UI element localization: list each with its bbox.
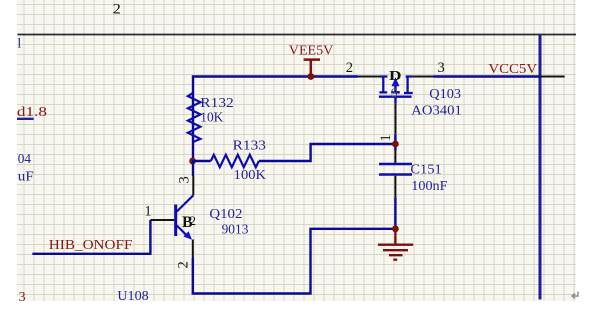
resistor R133 [211, 155, 259, 167]
svg-text:3: 3 [177, 176, 193, 183]
wire R132 to node [192, 142, 194, 161]
emitter arrowhead [183, 231, 192, 240]
svg-text:VCC5V: VCC5V [488, 62, 537, 77]
MOSFET drain contact [404, 77, 413, 94]
node junction R132/R133/collector [189, 158, 196, 165]
svg-text:Q103: Q103 [429, 87, 461, 102]
wire collector to node [192, 161, 194, 176]
wire node to R133 [193, 160, 211, 162]
svg-text:100nF: 100nF [411, 179, 447, 194]
MOSFET Q103 body: source contact [379, 77, 387, 93]
MOSFET Q103 drain pin [412, 76, 433, 78]
power symbol VEE5V [304, 60, 320, 77]
svg-text:l: l [17, 36, 21, 51]
MOSFET bulk contact with arrow [391, 84, 400, 92]
svg-text:2: 2 [346, 60, 353, 76]
emitter diagonal [177, 226, 188, 237]
junction gate/R133/C151 [392, 141, 399, 148]
wire VEE5V rail to MOSFET source [193, 77, 358, 143]
wire MOSFET drain to VCC5V [434, 75, 541, 77]
svg-text:100K: 100K [234, 168, 266, 183]
svg-text:D: D [389, 69, 402, 84]
sheet symbol right edge (blue vertical line) [539, 35, 542, 300]
wire C151 to ground junction [394, 197, 396, 228]
svg-text:10K: 10K [200, 110, 223, 125]
collector diagonal [177, 195, 194, 211]
svg-text:9013: 9013 [222, 222, 249, 237]
wire HIB_ONOFF to base [32, 220, 151, 254]
svg-text:C151: C151 [410, 163, 441, 178]
capacitor C151 plates [379, 164, 412, 175]
svg-text:VEE5V: VEE5V [289, 43, 334, 58]
ground symbol [378, 229, 413, 260]
emitter pin [192, 240, 194, 259]
svg-text:1: 1 [144, 203, 151, 219]
svg-text:3: 3 [438, 60, 445, 76]
wire emitter to ground net [193, 229, 396, 294]
svg-text:R132: R132 [200, 96, 234, 111]
paragraph return mark [572, 292, 578, 299]
capacitor C151 pin top [394, 151, 396, 163]
svg-text:3: 3 [19, 290, 26, 305]
pin stub right of sheet symbol [541, 76, 565, 78]
wire gate to junction [394, 134, 396, 150]
svg-text:2: 2 [190, 213, 197, 228]
svg-text:1: 1 [378, 134, 394, 141]
svg-text:2: 2 [113, 2, 121, 18]
svg-text:S: S [391, 85, 398, 100]
sheet border top line [18, 34, 577, 36]
wire under d1.8 [17, 118, 34, 120]
svg-text:R133: R133 [233, 138, 266, 153]
capacitor C151 pin bottom [394, 176, 396, 198]
gate pin [395, 104, 397, 134]
transistor Q102 base pin [150, 219, 174, 221]
svg-text:AO3401: AO3401 [411, 104, 462, 119]
svg-text:U108: U108 [117, 289, 148, 304]
transistor Q102 body [174, 205, 177, 237]
resistor R132 [188, 93, 201, 142]
MOSFET Q103 source pin [358, 76, 380, 78]
collector pin [192, 176, 194, 195]
svg-text:HIB_ONOFF: HIB_ONOFF [49, 238, 133, 253]
MOSFET gate bar [379, 97, 412, 104]
wire R133 to gate net [259, 144, 396, 161]
junction VEE5V rail [307, 73, 314, 80]
svg-text:04: 04 [18, 152, 31, 167]
junction at ground [392, 225, 399, 232]
svg-text:Q102: Q102 [209, 207, 242, 222]
svg-text:uF: uF [18, 169, 34, 184]
svg-text:2: 2 [176, 261, 192, 268]
